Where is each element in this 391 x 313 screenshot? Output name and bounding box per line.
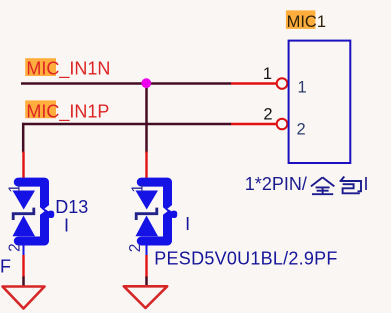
- svg-text:MIC1: MIC1: [287, 13, 326, 31]
- D13 notch cut left: [39, 206, 45, 215]
- svg-text:2: 2: [7, 243, 24, 252]
- junction dot on MIC_IN1N: [141, 78, 151, 88]
- D14 notch cut right: [167, 204, 173, 212]
- wire MIC_IN1P vertical drop to D13: [22, 123, 25, 153]
- wire MIC_IN1N vertical drop to D14: [145, 84, 148, 153]
- D13 zener bar: [13, 208, 34, 220]
- svg-text:1: 1: [263, 65, 272, 83]
- pin lead MIC1 pin2: [231, 123, 276, 125]
- D13 notch tab: [48, 211, 55, 218]
- hanzi 全: [311, 177, 334, 194]
- D13 notch cut right: [44, 204, 50, 212]
- TVS diode D14 (PESD): [127, 152, 177, 257]
- D13 loop: [18, 182, 44, 241]
- svg-text:2: 2: [297, 121, 306, 139]
- svg-text:MIC_IN1N: MIC_IN1N: [26, 58, 110, 79]
- net label MIC_IN1P highlight: [25, 100, 56, 118]
- wire D13 pin2 to ground: [22, 255, 24, 278]
- wire net MIC_IN1P horizontal: [22, 123, 231, 126]
- comment 1*2PIN/全包 I: [245, 174, 369, 194]
- wire stub to GND1: [22, 277, 25, 287]
- D14 top diode triangle: [136, 191, 159, 210]
- designator MIC1 highlight: [286, 10, 316, 29]
- D13 pin 1 lead (red): [22, 152, 24, 179]
- TVS diode D13: [7, 152, 55, 257]
- D14 notch tab: [171, 211, 178, 218]
- pin 1 circle: [277, 78, 288, 89]
- D14 pin 1 lead (red): [145, 152, 147, 179]
- wire net MIC_IN1N horizontal: [21, 82, 231, 85]
- D14 zener bar: [136, 208, 157, 220]
- svg-text:2: 2: [127, 244, 144, 253]
- D14 loop: [141, 182, 167, 241]
- svg-text:2: 2: [263, 106, 272, 124]
- D14 notch cut left: [162, 206, 168, 215]
- D13 bottom diode triangle: [13, 216, 36, 237]
- net label MIC_IN1N highlight: [25, 58, 56, 76]
- D13 top diode triangle: [13, 191, 36, 210]
- svg-text:1: 1: [7, 184, 24, 193]
- svg-text:MIC_IN1P: MIC_IN1P: [26, 101, 109, 122]
- connector MIC1 body: [289, 41, 351, 163]
- D14 bottom diode triangle: [136, 216, 159, 237]
- svg-text:1: 1: [298, 79, 307, 97]
- ground GND2: [124, 286, 167, 308]
- D14 pin 2 stub (blue): [146, 245, 148, 256]
- D13 pin 2 stub (blue): [23, 245, 25, 256]
- pin 2 circle: [277, 119, 288, 130]
- svg-text:F: F: [0, 257, 11, 277]
- pin lead MIC1 pin1: [231, 82, 276, 84]
- ground GND1: [3, 287, 45, 309]
- svg-text:I: I: [64, 216, 69, 236]
- wire stub to GND2: [145, 277, 148, 287]
- svg-text:D13: D13: [55, 197, 88, 217]
- svg-text:1*2PIN/: 1*2PIN/: [245, 174, 307, 194]
- wire D14 pin2 to ground: [145, 255, 147, 278]
- svg-text:I: I: [185, 214, 190, 234]
- svg-text:1: 1: [130, 184, 147, 193]
- hanzi 包: [340, 177, 361, 194]
- svg-text:PESD5V0U1BL/2.9PF: PESD5V0U1BL/2.9PF: [154, 248, 337, 268]
- svg-text:I: I: [364, 174, 369, 194]
